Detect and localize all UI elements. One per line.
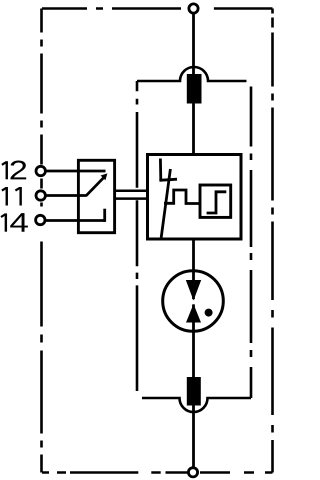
top plug contact (black bar) — [187, 74, 202, 104]
disconnector tick — [159, 179, 177, 180]
label 11 — [2, 187, 21, 206]
outer enclosure dash-dot border (top edge, right of terminal) — [214, 7, 273, 10]
main protection function box (white body) — [148, 155, 242, 240]
relay contact arrowhead — [101, 173, 108, 180]
monitoring square-wave signal — [164, 190, 200, 204]
inner protection-module dash-dot border (right edge) — [250, 87, 253, 399]
wire: terminal 11 to relay common — [44, 194, 87, 197]
mechanical coupling link (upper line) — [115, 190, 148, 193]
outer enclosure dash-dot border (right edge) — [271, 9, 274, 473]
disconnector lead inside main box — [159, 159, 162, 181]
disconnector blade — [161, 169, 170, 238]
wire: main box to spark gap top arrow — [192, 239, 195, 299]
relay changeover box K (left, white body) — [78, 160, 114, 232]
label 14 — [1, 213, 28, 232]
wire: terminal 12 to relay box contact — [44, 170, 106, 173]
spark gap lower electrode arrow — [186, 304, 201, 323]
terminal circle 11 — [36, 191, 45, 200]
threshold element box — [200, 185, 231, 217]
spark gap upper electrode arrow — [186, 280, 201, 301]
outer enclosure dash-dot border (left edge) — [40, 9, 43, 473]
label 12 — [2, 161, 26, 180]
terminal circle top — [189, 4, 198, 13]
terminal circle bottom — [188, 468, 197, 477]
relay movable contact arm with arrow — [86, 178, 104, 196]
inner module bottom boundary with plug-contact arc — [142, 398, 251, 412]
outer enclosure dash-dot border (bottom edge, right of terminal) — [200, 471, 273, 474]
wire: spark gap bottom arrow to bottom terminal — [192, 304, 195, 472]
wire: terminal 14 to relay box contact — [44, 219, 106, 222]
inner protection-module dash-dot border (left edge) — [136, 81, 139, 391]
outer enclosure dash-dot border (bottom edge, left of terminal) — [42, 471, 188, 474]
trigger dot — [205, 309, 213, 317]
relay fixed contact 14 (L stub) — [103, 209, 106, 222]
step function glyph — [207, 192, 227, 213]
bottom plug contact (black bar) — [187, 377, 201, 406]
mechanical coupling link (lower line) — [115, 197, 148, 200]
inner module top boundary with plug-contact arc — [137, 67, 247, 81]
terminal circle 12 — [36, 166, 45, 175]
spark gap circle — [163, 271, 224, 332]
outer enclosure dash-dot border (top edge, left of terminal) — [42, 7, 181, 10]
wire: top terminal to main box — [192, 9, 195, 155]
terminal circle 14 — [36, 215, 45, 224]
